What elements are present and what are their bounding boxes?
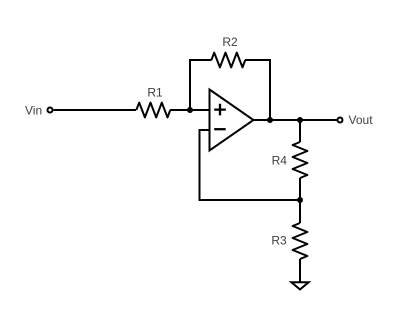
svg-text:R3: R3 xyxy=(271,234,287,248)
wire R1 to op-amp + input xyxy=(170,109,210,111)
op-amp - input symbol xyxy=(214,128,226,130)
resistor R3 xyxy=(293,223,308,259)
svg-text:R4: R4 xyxy=(272,153,288,167)
resistor R1 xyxy=(136,103,170,118)
op-amp U1 xyxy=(210,90,254,151)
wire Vin to R1 xyxy=(54,109,137,111)
resistor R4 xyxy=(293,142,308,178)
wire R2 left lead xyxy=(189,59,212,61)
resistor R2 xyxy=(211,53,245,68)
wire node D down to R3 xyxy=(299,200,301,223)
wire op-amp output to Vout xyxy=(253,119,337,121)
node A junction dot (R1 / R2 / + input) xyxy=(187,107,193,113)
svg-text:Vout: Vout xyxy=(349,113,374,127)
wire feedback from node D to op-amp - input xyxy=(200,130,301,200)
svg-text:R1: R1 xyxy=(147,86,163,100)
ground xyxy=(291,282,308,289)
node B junction dot (output / R2) xyxy=(267,117,273,123)
node D junction dot (R4 / R3 / feedback) xyxy=(297,197,303,203)
svg-text:Vin: Vin xyxy=(25,104,42,118)
svg-text:R2: R2 xyxy=(222,35,238,49)
terminal Vout xyxy=(338,118,343,123)
wire node C down to R4 xyxy=(299,120,301,142)
node C junction dot (output / R4) xyxy=(297,117,303,123)
wire R4 to node D xyxy=(299,178,301,200)
wire node A up to R2 left xyxy=(189,60,191,109)
terminal Vin xyxy=(48,108,53,113)
op-amp + input symbol xyxy=(214,104,226,116)
wire R3 to ground xyxy=(299,259,301,282)
wire R2 right lead xyxy=(245,59,271,61)
wire R2 right down to output node xyxy=(269,59,271,120)
